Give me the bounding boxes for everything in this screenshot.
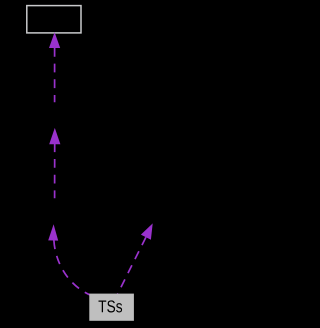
arrowhead edge B	[49, 128, 60, 144]
arrowhead edge C	[48, 224, 58, 240]
wire edge D dashed diagonal (from TSs top-right up to hidden node)	[118, 237, 146, 294]
wire edge B dashed (middle vertical)	[54, 143, 56, 198]
node TSs	[89, 294, 134, 321]
wire edge C dashed curve (from TSs top-left up to hidden node)	[54, 240, 90, 294]
wire edge A dashed (up into top box)	[54, 48, 56, 102]
arrowhead edge D	[141, 223, 153, 239]
node top (empty class box)	[27, 6, 81, 33]
arrowhead edge A	[49, 32, 60, 48]
